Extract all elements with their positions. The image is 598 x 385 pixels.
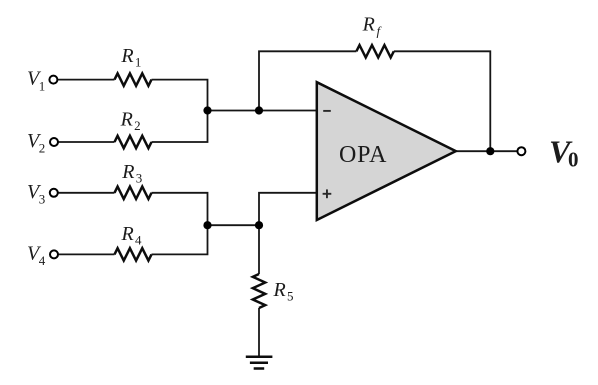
- svg-text:5: 5: [287, 289, 294, 304]
- svg-text:4: 4: [135, 233, 142, 248]
- svg-text:R: R: [120, 45, 133, 67]
- svg-text:0: 0: [568, 147, 579, 171]
- svg-text:3: 3: [39, 192, 46, 207]
- svg-text:4: 4: [39, 253, 46, 268]
- svg-text:R: R: [120, 108, 133, 130]
- svg-text:R: R: [362, 14, 375, 36]
- svg-text:R: R: [121, 161, 134, 183]
- svg-text:2: 2: [39, 141, 46, 156]
- svg-text:2: 2: [134, 118, 141, 133]
- svg-text:R: R: [273, 279, 286, 301]
- svg-text:1: 1: [39, 78, 46, 93]
- svg-text:f: f: [377, 23, 383, 38]
- svg-text:1: 1: [135, 55, 142, 70]
- svg-text:3: 3: [136, 171, 143, 186]
- svg-text:R: R: [121, 223, 134, 245]
- svg-text:OPA: OPA: [339, 142, 387, 168]
